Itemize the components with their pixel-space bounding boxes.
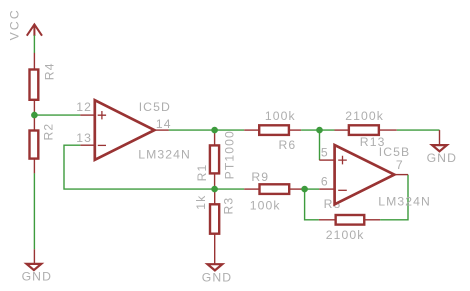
resistor R2	[30, 115, 39, 173]
svg-text:VCC: VCC	[7, 8, 21, 40]
resistor R6	[244, 125, 301, 135]
wire node E down to pin 5	[319, 130, 321, 160]
wire pin 13 feedback loop	[64, 145, 215, 189]
resistor R1	[210, 130, 219, 189]
resistor R3	[210, 189, 219, 264]
svg-text:100k: 100k	[265, 109, 296, 123]
svg-text:R2: R2	[41, 123, 55, 141]
svg-text:LM324N: LM324N	[138, 148, 191, 162]
svg-text:IC5D: IC5D	[139, 100, 171, 114]
svg-text:R9: R9	[251, 170, 269, 184]
resistor R13	[335, 125, 397, 135]
svg-text:14: 14	[156, 117, 172, 131]
ground (left)	[27, 249, 42, 270]
resistor R4	[30, 53, 39, 113]
svg-text:R1: R1	[195, 164, 209, 182]
svg-text:LM324N: LM324N	[378, 195, 431, 209]
wire R4 to node A	[33, 112, 35, 117]
svg-text:6: 6	[321, 174, 329, 188]
node D junction	[301, 186, 308, 193]
node C junction	[211, 127, 218, 134]
wire R8 to output corner	[380, 175, 408, 220]
svg-text:100k: 100k	[250, 199, 281, 213]
node A junction	[31, 112, 38, 119]
svg-text:7: 7	[396, 158, 404, 172]
wire node D down to R8	[305, 189, 319, 220]
wire node D to pin 6	[305, 188, 320, 190]
wire node A to pin 12	[34, 114, 80, 116]
wire output pin 14 to node E	[169, 129, 244, 131]
svg-text:1k: 1k	[194, 195, 208, 210]
op-amp IC5B	[319, 145, 408, 204]
wire VCC to R4	[33, 35, 35, 53]
supply VCC symbol	[27, 24, 42, 36]
svg-text:GND: GND	[202, 271, 232, 285]
svg-text:5: 5	[321, 145, 329, 159]
svg-text:R4: R4	[43, 62, 57, 80]
wire R13 to ground	[397, 129, 440, 131]
svg-text:R3: R3	[221, 197, 235, 215]
wire node B to R9	[215, 188, 245, 190]
svg-text:GND: GND	[22, 270, 52, 284]
node E junction	[316, 127, 323, 134]
svg-text:2100k: 2100k	[326, 228, 365, 242]
op-amp IC5D	[80, 100, 169, 160]
resistor R8	[319, 215, 380, 225]
svg-text:12: 12	[76, 100, 92, 114]
svg-text:PT1000: PT1000	[222, 130, 236, 179]
wire R2 to ground	[33, 173, 35, 249]
svg-text:GND: GND	[427, 151, 457, 165]
node B junction	[211, 186, 218, 193]
wire R6 to node E	[301, 129, 334, 131]
svg-text:IC5B: IC5B	[379, 145, 411, 159]
svg-text:R6: R6	[279, 138, 297, 152]
resistor R9	[244, 184, 303, 194]
ground (middle)	[208, 264, 223, 270]
svg-text:13: 13	[76, 131, 92, 145]
svg-text:2100k: 2100k	[345, 109, 384, 123]
ground (top right)	[432, 130, 447, 151]
